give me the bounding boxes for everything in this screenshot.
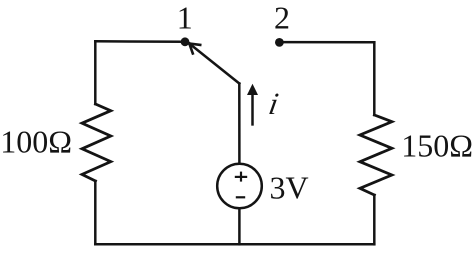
svg-text:150Ω: 150Ω bbox=[401, 127, 473, 163]
svg-text:i: i bbox=[266, 86, 281, 121]
svg-text:100Ω: 100Ω bbox=[0, 123, 72, 159]
svg-text:3V: 3V bbox=[270, 169, 309, 205]
svg-text:1: 1 bbox=[177, 0, 193, 35]
svg-text:2: 2 bbox=[274, 0, 290, 35]
